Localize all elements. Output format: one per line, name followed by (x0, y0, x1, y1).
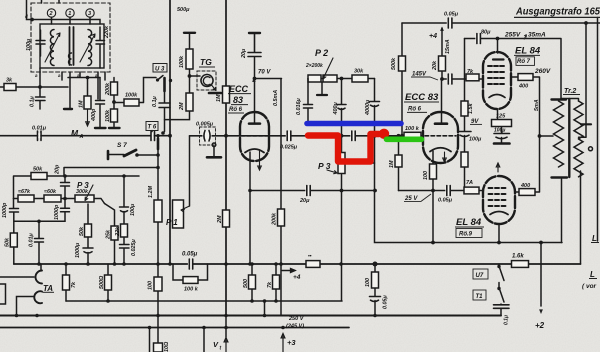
resistor 100k x189 (186, 49, 193, 69)
wire V1 cathode down (249, 152, 251, 264)
arrow MA down (86, 109, 90, 126)
capacitor coupling V3 grid (447, 74, 452, 84)
potentiometer P1 body (173, 200, 184, 228)
wire 4000u chain (374, 79, 376, 136)
ground bar terminal (64, 108, 72, 110)
node U3 x170 (169, 79, 172, 82)
wire hidden y163 to feedback (345, 162, 375, 164)
svg-text:500μ: 500μ (177, 7, 190, 13)
node x158 signal (156, 134, 159, 137)
resistor 1M x398.5 (395, 155, 402, 167)
svg-text:0.5mA: 0.5mA (273, 90, 279, 106)
switch S7 pole bar (107, 151, 110, 159)
wire T6 stub (151, 131, 153, 133)
underline 145V (411, 77, 438, 80)
tube V4 EL84 envelope (483, 176, 515, 224)
resistor 200k (111, 82, 118, 95)
svg-text:0.05μ: 0.05μ (438, 198, 453, 204)
wire P2 row y78.5 (308, 78, 375, 80)
node TG tap (188, 74, 192, 78)
node bus x252 (250, 262, 254, 266)
tube V4 cathode (490, 212, 508, 215)
wire Tr1 bottom terminals (40, 68, 105, 108)
svg-text:100μ: 100μ (494, 128, 505, 134)
wire 70V to 0.5mA arrow (255, 78, 282, 80)
SECTION-B (0, 0, 230, 343)
underline ECC83 V2 (404, 102, 439, 112)
terminal a Tr2 (589, 147, 593, 151)
wire chain x276 below bus (275, 264, 277, 301)
capacitor 0.1u input (36, 87, 46, 109)
capacitor 0.05u x375 (370, 297, 381, 302)
svg-text:+4: +4 (293, 274, 301, 281)
capacitor 0.01u inline (38, 131, 42, 140)
wire TA upper stub (40, 264, 42, 271)
resistor 25k x108 (111, 226, 118, 240)
node y301 x276 (274, 299, 278, 303)
tube V3 EL84 envelope (483, 52, 511, 109)
arrow V2 heater (443, 152, 447, 162)
resistor 400 screen V4 (519, 189, 535, 196)
terminal bar x254 (249, 32, 260, 34)
potentiometer 1.2M body (154, 200, 162, 222)
svg-text:4000μ: 4000μ (365, 99, 371, 116)
svg-text:0.1μ: 0.1μ (30, 96, 36, 107)
capacitor 220k right of Tr1 (96, 27, 105, 68)
node 145V (440, 77, 444, 81)
node y315 x375 (373, 314, 377, 318)
svg-text:260V: 260V (534, 68, 551, 75)
svg-text:0.005μ: 0.005μ (196, 122, 214, 128)
transformer Tr1 right winding (88, 30, 92, 66)
svg-text:100 k: 100 k (184, 287, 199, 293)
wire chain x375 below bus (374, 264, 376, 316)
wire V3 grid y79 (442, 78, 483, 80)
tube V3 cathode (489, 95, 505, 98)
tube V2 grid (425, 135, 456, 137)
wire chain x108 (105, 204, 115, 265)
arrow P1 wiper (181, 206, 190, 212)
node row x65 (63, 197, 67, 201)
node y190 x341 (340, 189, 344, 193)
node S7 x158 (156, 153, 160, 157)
svg-text:1.2M: 1.2M (148, 186, 154, 198)
svg-text:25k: 25k (106, 229, 112, 240)
wire 50k to bus (13, 247, 15, 264)
svg-text:500Ω: 500Ω (99, 275, 105, 289)
wire bus3 y327.5 (0, 327, 349, 329)
arrow 0.5mA (252, 77, 256, 82)
arrow P2 wiper (323, 58, 333, 79)
svg-text:70 V: 70 V (258, 70, 271, 76)
node Tr2 tap (538, 134, 542, 138)
svg-text:0.1μ: 0.1μ (152, 96, 158, 107)
transformer Tr1 dashed enclosure (31, 3, 110, 72)
svg-text:100: 100 (148, 281, 154, 290)
node bus x276 (274, 262, 278, 266)
capacitor 100u x124 (120, 207, 129, 212)
svg-text:Tr.2: Tr.2 (564, 88, 576, 95)
capacitor coupling2 inline (350, 131, 355, 141)
node bus x170 (168, 262, 172, 266)
resistor 1.6k inline bus (512, 261, 529, 268)
transistor TG dashed box (197, 71, 216, 90)
svg-text:0.016μ: 0.016μ (296, 98, 302, 115)
potentiometer P3a 300k track (75, 195, 94, 202)
wire S7 pole (109, 154, 124, 156)
transformer Tr1 middle winding (69, 53, 72, 65)
contact U3 tick (158, 76, 164, 81)
node y190 x250 (248, 189, 252, 193)
arrow trim left winding (45, 33, 60, 62)
capacitor 100u left of Tr1 (36, 30, 45, 56)
node x226 y327 (224, 326, 228, 330)
node bus x226 (224, 262, 228, 266)
svg-text:Rö 7: Rö 7 (517, 59, 531, 65)
node P3b signal (340, 134, 344, 138)
resistor 30k (352, 75, 368, 82)
underline Ausgangstrafo (514, 16, 600, 18)
svg-text:+4: +4 (429, 33, 437, 40)
arrow +4 bus tap (282, 269, 295, 273)
wire terminal stubs (52, 17, 91, 24)
wire 200k chain (113, 78, 115, 127)
node y301 x264.5 (263, 299, 267, 303)
potentiometer P2 track b (323, 75, 337, 82)
wire V4 screen y192 (515, 136, 540, 192)
wire anode line y38.5 (465, 39, 562, 99)
transformer Tr1 inner frame (40, 24, 104, 68)
switch chain U7 T1 (499, 264, 504, 316)
svg-text:50k: 50k (33, 167, 43, 173)
node top-left junction (30, 18, 34, 22)
resistor 1k inline bus (306, 261, 320, 268)
svg-text:1.5k: 1.5k (468, 103, 474, 114)
node bus x40 (37, 262, 41, 266)
node switch top (497, 265, 500, 268)
wire chain x158 (157, 136, 159, 343)
svg-text:3: 3 (88, 11, 91, 17)
underline Tr2 (563, 94, 580, 96)
node EL84a anode (496, 37, 500, 41)
terminal 0.005u (212, 143, 216, 147)
resistor 50k x88 (85, 224, 92, 237)
svg-text:T 6: T 6 (148, 125, 157, 131)
wire Tr2 secondary tap (579, 126, 587, 138)
capacitor 1000p mid (61, 199, 70, 222)
resistor 7k grid stopper (466, 74, 479, 81)
wire EL84a anode stem (497, 39, 499, 54)
resistor 7k x276 (273, 275, 280, 289)
ground EL84a cathode (494, 142, 510, 145)
ground 400p (95, 127, 106, 129)
svg-text:400μ: 400μ (333, 102, 339, 116)
wire highlight blue (307, 121, 401, 127)
node 4000u signal (373, 134, 377, 138)
wire TA lower link (17, 297, 34, 316)
underline TA (43, 291, 55, 293)
wire long vertical x226 (225, 0, 227, 316)
wire V2 anode stem (441, 79, 443, 123)
svg-text:≈67k: ≈67k (18, 189, 31, 195)
resistor 50k inline y176 (31, 173, 47, 180)
wire x204 drop (203, 328, 205, 352)
SECTION-A (0, 76, 156, 128)
node bus x158 (156, 262, 160, 266)
wire Tr2 secondary tops (561, 99, 579, 102)
svg-text:400: 400 (520, 183, 530, 189)
svg-text:1000μ: 1000μ (75, 242, 81, 258)
svg-text:7k: 7k (71, 281, 77, 288)
ground TG (209, 92, 221, 95)
arrow V_t (224, 338, 228, 352)
node y167-x158 (156, 166, 160, 170)
wire highlight green (387, 137, 422, 143)
resistor 100k horizontal (124, 99, 139, 106)
transformer Tr1 left winding (50, 30, 54, 66)
svg-text:P 3: P 3 (318, 161, 331, 171)
resistor 7k bottomleft (63, 275, 70, 290)
resistor 20k (439, 56, 446, 71)
svg-text:P 1: P 1 (166, 218, 178, 227)
wire P3b chain x341 (341, 109, 343, 301)
capacitor 0.025u x124 (120, 245, 130, 249)
wire +2 drop (540, 243, 542, 307)
svg-text:400p: 400p (91, 108, 97, 122)
wire row y301 (66, 300, 342, 302)
wire cathode line y190.5 left (250, 190, 376, 192)
node feedback x501 (497, 241, 501, 245)
underlines ECC83 V1 (228, 94, 251, 113)
node TA y315 (15, 314, 19, 318)
transformer Tr2 core (568, 99, 570, 177)
svg-text:Rö 6: Rö 6 (229, 107, 243, 113)
svg-text:L: L (592, 234, 597, 243)
svg-text:20μ: 20μ (299, 198, 310, 204)
resistor 125 EL84a cathode (492, 120, 512, 127)
wire signal line left y135.7 (0, 135, 170, 137)
wire secondary top x586 (585, 23, 587, 124)
svg-text:200k: 200k (272, 212, 278, 226)
svg-text:2M: 2M (179, 102, 185, 111)
svg-text:80μ: 80μ (481, 30, 491, 36)
resistor 200k x280 (278, 209, 285, 226)
boxed label T6 (146, 122, 158, 131)
wire y167 (64, 168, 158, 177)
capacitor 20u anode (248, 34, 261, 57)
potentiometer P3b body (338, 153, 345, 174)
node highlight red blob (379, 129, 389, 139)
wire 100k chain (165, 34, 190, 132)
arrow heater V4 (496, 163, 500, 172)
underline EL84 V4 (455, 226, 484, 228)
tube V1 anode (249, 122, 260, 125)
svg-text:50k: 50k (79, 226, 85, 236)
node bus x88 (86, 262, 90, 266)
wire V2 cathode down (432, 151, 434, 191)
tube V2 anode bar (435, 122, 447, 125)
underline EL84 V3 (514, 54, 540, 56)
svg-text:+2: +2 (535, 321, 545, 330)
node y315 x225 (224, 314, 228, 318)
svg-text:≈60k: ≈60k (44, 189, 57, 195)
capacitor 80u (475, 34, 480, 44)
svg-text:0.01μ: 0.01μ (32, 126, 47, 132)
capacitor 100u x466 (458, 132, 471, 137)
resistor 100 x375 (372, 272, 379, 288)
svg-text:3k: 3k (6, 78, 13, 84)
capacitor 0.016u (304, 105, 313, 109)
capacitor 400u (337, 105, 346, 110)
resistor 67k (18, 195, 34, 202)
node y221 x39 (37, 220, 41, 224)
capacitor 0.025u coupling1 (286, 131, 291, 141)
svg-text:1000p: 1000p (2, 202, 8, 218)
wire main bus y264 (14, 263, 581, 265)
ground 0.005u (207, 156, 221, 159)
wire long vertical x170 (169, 0, 171, 264)
svg-text:Rö 6: Rö 6 (408, 107, 422, 113)
svg-text:U 3: U 3 (155, 67, 165, 73)
connector TA left box (0, 284, 6, 304)
resistor 100 cathode V2 (430, 164, 437, 179)
switch S7 blade (124, 150, 136, 156)
svg-text:U7: U7 (476, 273, 484, 279)
svg-text:TG: TG (200, 57, 212, 67)
wire y221.3 (14, 220, 65, 222)
svg-text:100 k: 100 k (405, 126, 420, 132)
svg-text:1M: 1M (216, 94, 222, 102)
svg-text:100μ: 100μ (26, 38, 32, 51)
svg-text:2M: 2M (217, 215, 223, 224)
svg-text:15mA: 15mA (445, 39, 451, 54)
svg-text:7A: 7A (466, 180, 473, 186)
svg-text:1: 1 (68, 11, 71, 17)
wire V4 anode down (498, 224, 500, 243)
transformer Tr1 core (70, 27, 74, 65)
svg-text:ECC: ECC (229, 84, 249, 94)
node x264.5 y315 (263, 314, 267, 318)
resistor 7A cathode line (464, 187, 479, 194)
terminal bar P2 wiper (317, 94, 327, 96)
svg-text:200k: 200k (105, 82, 111, 96)
wire TA upper (0, 276, 34, 278)
svg-text:100μ: 100μ (469, 137, 482, 143)
svg-text:0.05μ: 0.05μ (182, 252, 198, 258)
arrow 35mA tick (524, 35, 527, 40)
capacitor 0.05u inline bus (188, 259, 193, 269)
wire wiper chain x88 (87, 204, 89, 224)
resistor 1.5k x466 (461, 101, 468, 116)
wire signal line mid y135.8 (190, 135, 424, 137)
capacitor 0.05u cathode (445, 186, 450, 196)
resistor 400 screen V3 (518, 74, 533, 81)
capacitor 4000u (370, 102, 380, 107)
node 200k-100k tap (112, 100, 116, 104)
wire x226 below bus (225, 316, 227, 338)
node bus x108 (113, 262, 117, 266)
svg-text:7k: 7k (267, 281, 273, 288)
svg-text:7k: 7k (467, 69, 474, 75)
node +3 y327 (281, 326, 285, 330)
svg-text:1M: 1M (79, 100, 85, 108)
resistor bottom x158 (154, 343, 163, 352)
boxed label U7 (473, 269, 488, 279)
node bus x280 (279, 262, 283, 266)
contact S7 (135, 153, 139, 157)
resistor 500k (399, 56, 406, 71)
svg-text:0.05μ: 0.05μ (383, 295, 389, 309)
pickup TA upper coil (36, 271, 42, 284)
node MA y77 (86, 76, 90, 80)
tube V1 grid (241, 135, 268, 137)
boxed label T1 (473, 290, 486, 300)
node 70V (253, 77, 257, 81)
node y301 x108 (106, 299, 110, 303)
node y315 x158 (156, 314, 160, 318)
svg-text:2: 2 (49, 11, 53, 17)
wire 0.005u ground stub (213, 147, 215, 156)
node x204 y327 (202, 326, 206, 330)
tube V3 anode bar (493, 58, 504, 60)
svg-text:500k: 500k (391, 57, 397, 70)
svg-text:T1: T1 (476, 294, 484, 300)
node y301 x252 (250, 299, 254, 303)
svg-text:EL 84: EL 84 (456, 217, 482, 228)
svg-text:1000p: 1000p (54, 204, 60, 220)
transformer Tr2 secondary lower (574, 139, 583, 177)
jack T6 plug bar (157, 139, 160, 150)
svg-text:1M: 1M (389, 160, 395, 168)
capacitor 0.05u supply (447, 18, 452, 28)
wire TG branch (190, 75, 201, 77)
wire tap to 100k horizontal (114, 78, 156, 103)
wire 20k chain (441, 28, 443, 79)
resistor 2M x189 (186, 93, 193, 111)
resistor 2M inline x226 (223, 210, 230, 227)
node x170 signal (168, 134, 172, 138)
wire x264.5 link (264, 301, 266, 316)
node x586 y23 (584, 21, 588, 25)
svg-text:EL 84: EL 84 (515, 46, 541, 57)
svg-text:TA: TA (43, 284, 53, 293)
wire trimmer row y198.5 (14, 199, 105, 204)
wire V2 cathode to feedback (432, 191, 434, 243)
wire P1 wiper to signal (189, 136, 191, 206)
arrow +4 supply (440, 27, 444, 31)
node bus x250 (248, 262, 252, 266)
node x398.5 signal (397, 134, 401, 138)
svg-text:ECC 83: ECC 83 (405, 92, 439, 103)
wire border right (597, 18, 599, 242)
underline 25V (404, 194, 431, 201)
capacitor 0.1u switch (494, 305, 510, 309)
tube V2 cathode (430, 148, 451, 152)
terminal 1 (66, 9, 74, 17)
resistor 3k (4, 84, 16, 91)
wire input row y87 (0, 86, 68, 88)
svg-text:2×200k: 2×200k (305, 63, 323, 69)
node y315 x37 (35, 314, 39, 318)
svg-text:0.01μ: 0.01μ (29, 233, 35, 247)
svg-text:+3: +3 (287, 338, 296, 347)
node y176 x65 (63, 174, 67, 178)
svg-text:L: L (590, 270, 595, 279)
wire Tr2 secondary bottom down (580, 171, 582, 264)
contact x163 (161, 131, 165, 135)
node y176 x124 (122, 174, 126, 178)
terminal 2 (47, 9, 55, 17)
